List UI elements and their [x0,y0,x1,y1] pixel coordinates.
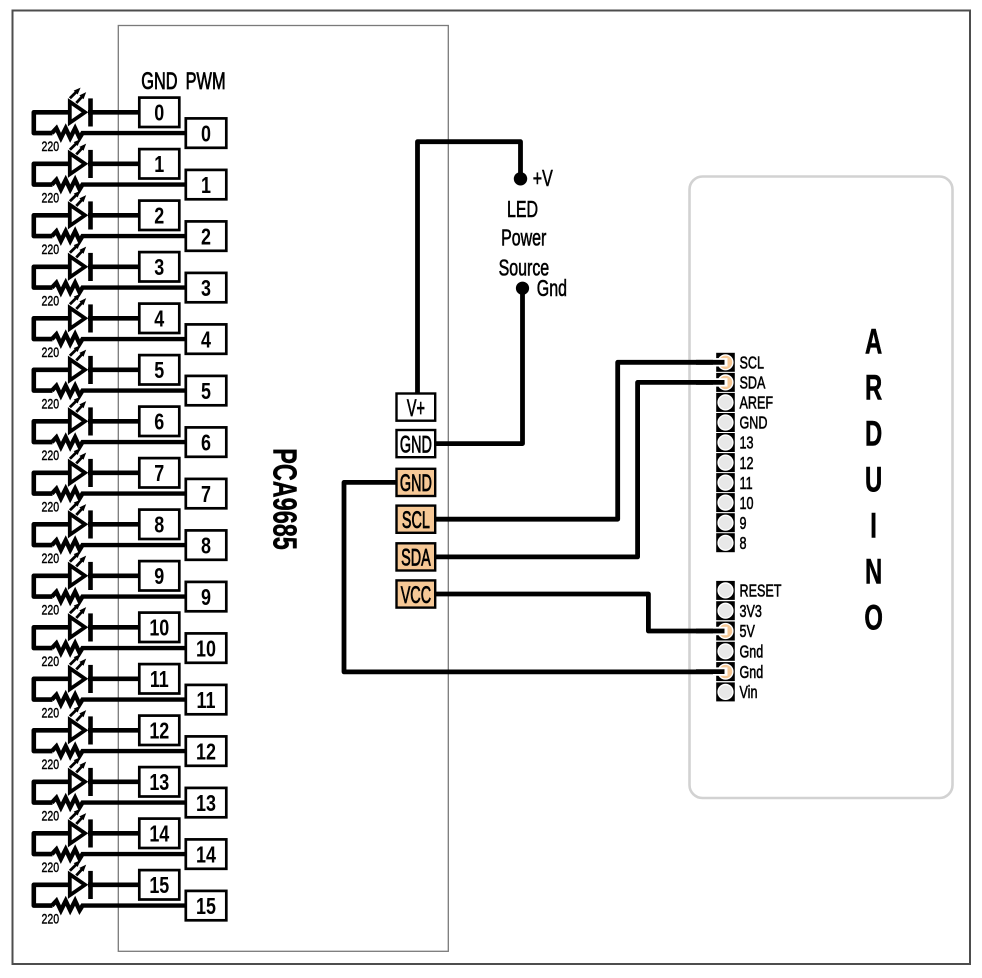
svg-text:Gnd: Gnd [740,663,764,683]
svg-text:GND: GND [740,414,768,434]
svg-text:9: 9 [154,564,164,590]
svg-text:220: 220 [42,242,60,258]
svg-text:A: A [865,323,882,362]
svg-text:SDA: SDA [401,545,431,572]
svg-text:11: 11 [197,688,216,714]
svg-text:10: 10 [149,616,169,642]
svg-text:14: 14 [196,842,216,868]
svg-text:3: 3 [154,255,164,281]
svg-text:220: 220 [42,860,60,876]
svg-text:5: 5 [201,379,211,405]
svg-text:PWM: PWM [186,68,226,95]
svg-text:Gnd: Gnd [740,643,764,663]
svg-text:12: 12 [149,719,169,745]
svg-text:GND: GND [400,470,432,497]
svg-text:220: 220 [42,808,60,824]
svg-text:10: 10 [740,494,754,514]
svg-text:Vin: Vin [740,683,758,703]
svg-text:8: 8 [154,513,164,539]
svg-text:7: 7 [201,482,211,508]
svg-text:220: 220 [42,448,60,464]
svg-text:I: I [870,507,877,546]
svg-text:2: 2 [154,204,164,230]
svg-text:2: 2 [201,224,211,250]
svg-text:4: 4 [201,327,211,353]
svg-text:13: 13 [196,791,216,817]
svg-text:13: 13 [740,434,754,454]
svg-text:V+: V+ [407,395,425,422]
svg-text:Gnd: Gnd [537,276,567,302]
svg-text:9: 9 [740,514,747,534]
svg-text:5V: 5V [740,622,756,642]
svg-text:AREF: AREF [740,394,774,414]
svg-text:GND: GND [141,68,177,95]
svg-text:GND: GND [400,432,432,459]
svg-text:220: 220 [42,551,60,567]
svg-text:+V: +V [533,166,553,192]
svg-text:6: 6 [154,410,164,436]
svg-text:RESET: RESET [740,582,782,602]
svg-text:13: 13 [149,770,169,796]
svg-text:VCC: VCC [401,582,431,609]
svg-text:O: O [864,599,883,638]
svg-text:U: U [865,461,882,500]
svg-text:3: 3 [201,276,211,302]
svg-text:4: 4 [154,307,164,333]
svg-text:220: 220 [42,602,60,618]
svg-text:220: 220 [42,293,60,309]
svg-text:220: 220 [42,757,60,773]
svg-text:PCA9685: PCA9685 [265,448,302,550]
svg-text:Power: Power [501,225,547,251]
svg-text:R: R [865,369,882,408]
svg-text:8: 8 [201,533,211,559]
svg-text:14: 14 [149,822,169,848]
svg-text:220: 220 [42,345,60,361]
svg-text:220: 220 [42,911,60,927]
svg-text:SCL: SCL [402,507,430,534]
svg-text:10: 10 [196,636,216,662]
svg-text:11: 11 [740,474,753,494]
svg-text:1: 1 [201,173,211,199]
svg-text:220: 220 [42,139,60,155]
svg-text:220: 220 [42,654,60,670]
svg-text:9: 9 [201,585,211,611]
svg-text:11: 11 [150,667,169,693]
svg-text:D: D [865,415,882,454]
svg-text:6: 6 [201,430,211,456]
svg-text:1: 1 [154,152,164,178]
svg-text:220: 220 [42,190,60,206]
svg-text:5: 5 [154,358,164,384]
svg-text:LED: LED [507,197,538,223]
svg-text:SCL: SCL [740,354,764,374]
svg-text:8: 8 [740,534,747,554]
svg-text:7: 7 [154,461,164,487]
svg-text:15: 15 [196,894,216,920]
svg-text:12: 12 [740,454,754,474]
svg-text:SDA: SDA [740,374,767,394]
svg-text:220: 220 [42,705,60,721]
svg-text:220: 220 [42,396,60,412]
svg-text:15: 15 [149,873,169,899]
svg-text:0: 0 [201,121,211,147]
svg-text:220: 220 [42,499,60,515]
svg-text:0: 0 [154,101,164,127]
svg-text:N: N [865,553,882,592]
svg-text:3V3: 3V3 [740,602,762,622]
svg-text:12: 12 [196,739,216,765]
